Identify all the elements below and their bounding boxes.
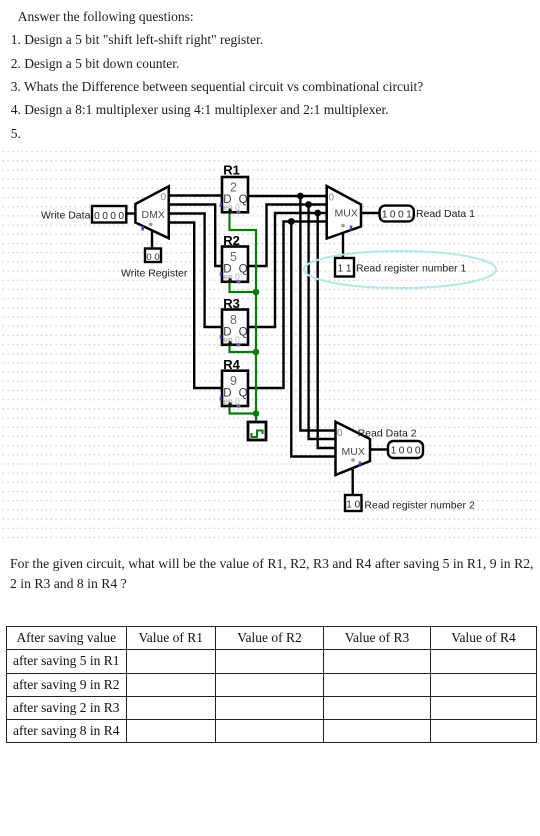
svg-text:Q: Q bbox=[239, 327, 248, 339]
svg-text:1 1: 1 1 bbox=[338, 264, 352, 275]
svg-text:Write Data: Write Data bbox=[41, 210, 91, 222]
svg-text:R3: R3 bbox=[223, 296, 240, 311]
svg-text:Read Data 2: Read Data 2 bbox=[358, 428, 417, 440]
svg-text:0: 0 bbox=[337, 428, 343, 439]
svg-text:Read Data 1: Read Data 1 bbox=[416, 208, 475, 220]
svg-text:9: 9 bbox=[230, 374, 237, 388]
svg-text:DMX: DMX bbox=[142, 209, 165, 221]
svg-text:Q: Q bbox=[239, 194, 248, 206]
svg-text:Read register number 2: Read register number 2 bbox=[364, 500, 474, 512]
svg-text:5: 5 bbox=[230, 250, 237, 264]
svg-text:1 0 0 0: 1 0 0 0 bbox=[391, 446, 421, 457]
svg-text:Write Register: Write Register bbox=[121, 267, 188, 279]
svg-text:R2: R2 bbox=[223, 233, 240, 248]
svg-text:MUX: MUX bbox=[335, 208, 358, 220]
svg-text:8: 8 bbox=[230, 313, 237, 327]
svg-text:Q: Q bbox=[239, 264, 248, 276]
svg-text:R4: R4 bbox=[223, 357, 240, 372]
svg-text:2: 2 bbox=[230, 181, 237, 195]
svg-text:1 0: 1 0 bbox=[346, 500, 360, 511]
svg-text:0: 0 bbox=[329, 193, 335, 204]
svg-text:Q: Q bbox=[239, 388, 248, 400]
svg-text:0 0 0 0: 0 0 0 0 bbox=[94, 211, 124, 222]
svg-text:R1: R1 bbox=[223, 163, 240, 178]
svg-text:Read register number 1: Read register number 1 bbox=[356, 263, 466, 275]
svg-text:1 0 0 1: 1 0 0 1 bbox=[382, 210, 412, 221]
svg-text:MUX: MUX bbox=[342, 446, 365, 458]
svg-text:0: 0 bbox=[161, 192, 167, 203]
svg-text:0 0: 0 0 bbox=[146, 252, 159, 263]
